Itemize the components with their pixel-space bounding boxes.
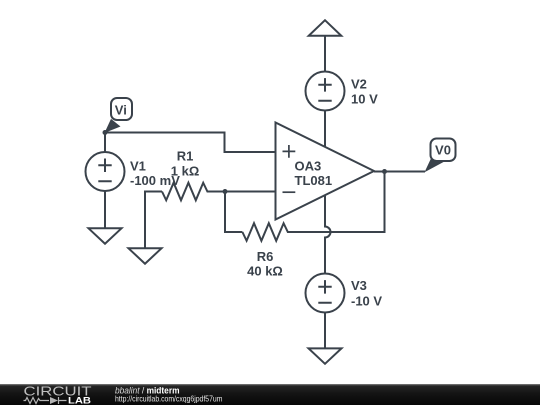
svg-text:V0: V0: [435, 143, 451, 158]
svg-text:Vi: Vi: [115, 103, 127, 118]
svg-text:R6: R6: [257, 249, 274, 264]
svg-text:40 kΩ: 40 kΩ: [247, 264, 283, 279]
svg-text:OA3: OA3: [295, 159, 322, 174]
svg-text:V2: V2: [351, 77, 367, 92]
svg-text:http://circuitlab.com/cxqg6jpd: http://circuitlab.com/cxqg6jpdf57um: [115, 393, 222, 403]
svg-text:1 kΩ: 1 kΩ: [171, 164, 200, 179]
svg-text:R1: R1: [177, 148, 194, 163]
svg-text:10 V: 10 V: [351, 91, 378, 106]
svg-text:TL081: TL081: [295, 173, 333, 188]
svg-text:LAB: LAB: [68, 396, 91, 405]
svg-text:V1: V1: [130, 158, 146, 173]
svg-text:V3: V3: [351, 278, 367, 293]
svg-text:-10 V: -10 V: [351, 293, 382, 308]
